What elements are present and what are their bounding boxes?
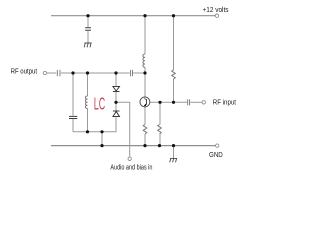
svg-text:+12 volts: +12 volts xyxy=(203,7,229,14)
svg-text:Audio and bias in: Audio and bias in xyxy=(110,164,152,171)
svg-text:RF output: RF output xyxy=(11,68,38,75)
svg-text:LC: LC xyxy=(94,93,106,113)
svg-text:RF input: RF input xyxy=(213,99,236,106)
svg-text:GND: GND xyxy=(209,152,223,159)
